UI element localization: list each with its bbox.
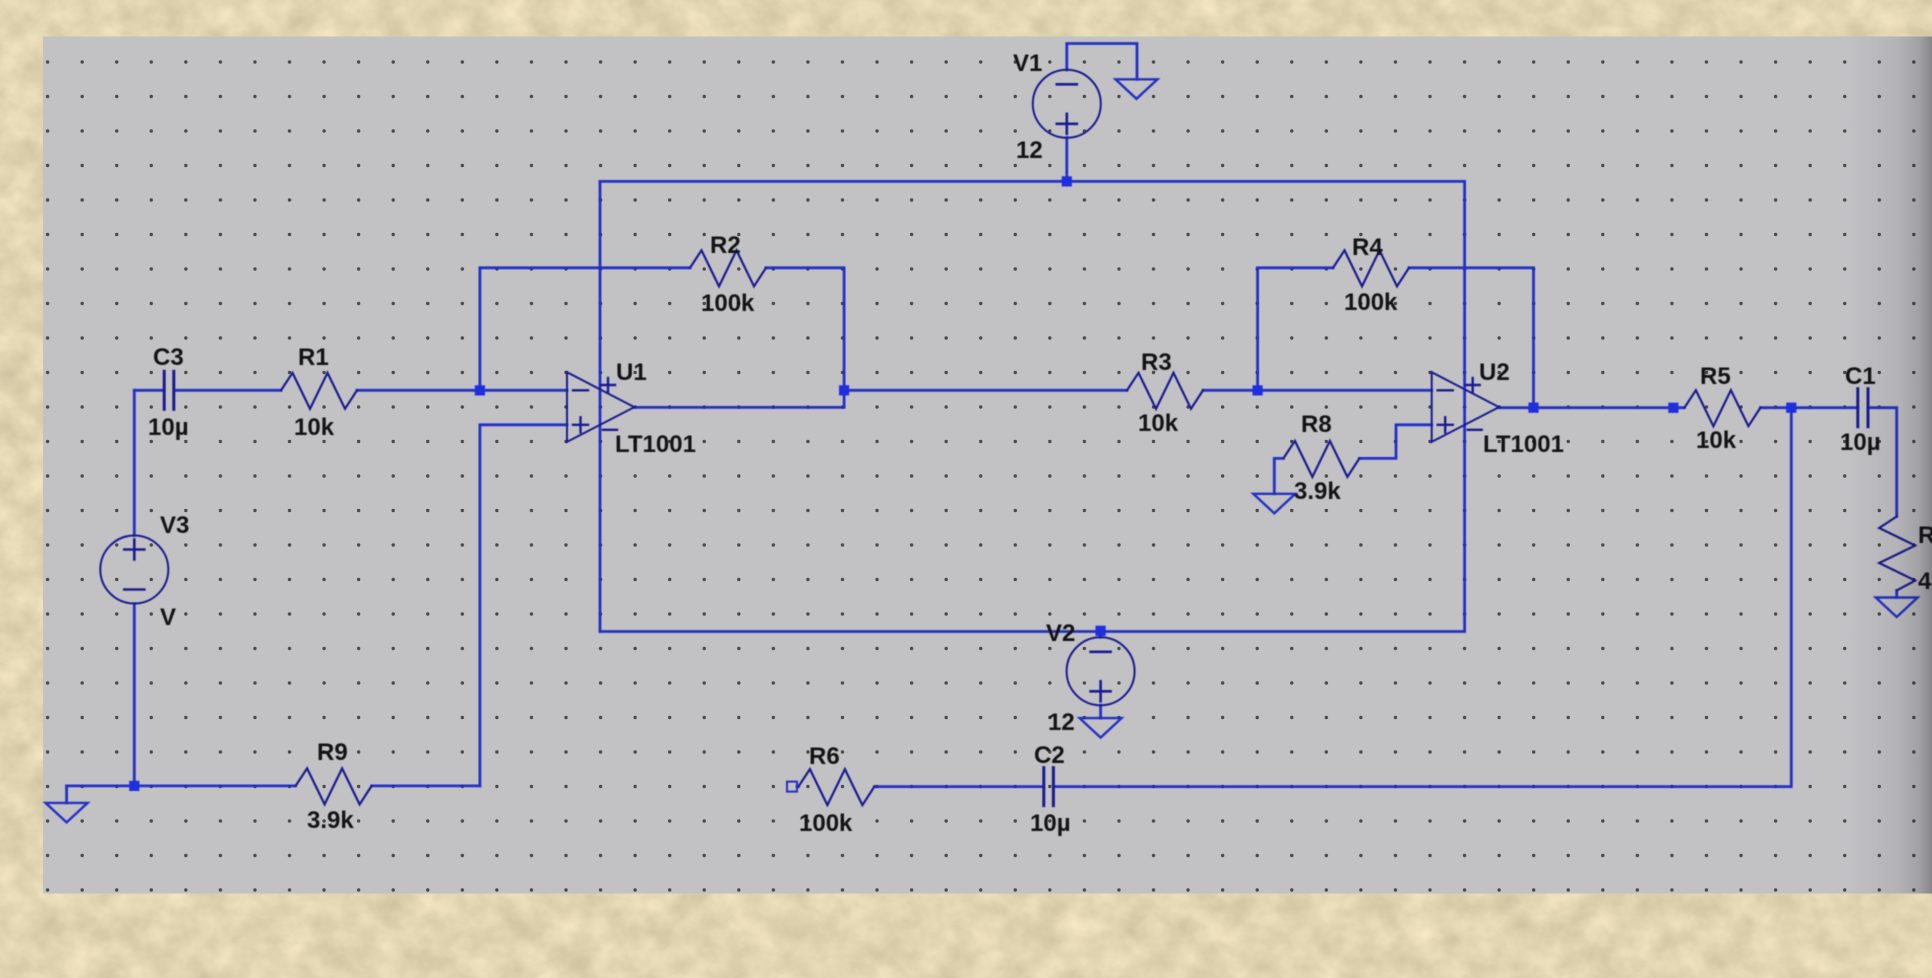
- wire R3 to U2 inverting input: [1203, 389, 1432, 392]
- svg-text:R5: R5: [1700, 363, 1731, 390]
- resistor R2 body: [690, 250, 766, 286]
- resistor R7 body: [1879, 517, 1915, 591]
- wire bottom power bus: [600, 630, 1465, 633]
- node U2 output node junction: [1528, 403, 1538, 413]
- wire feedback R4 right: [1409, 268, 1534, 408]
- svg-text:V: V: [160, 604, 176, 631]
- node V1 on top bus junction: [1062, 176, 1072, 186]
- node V3 ground node junction: [129, 781, 139, 791]
- svg-text:3.9k: 3.9k: [1294, 478, 1341, 505]
- wire feedback R4 left: [1258, 268, 1333, 391]
- voltage source V2 symbol: [1067, 637, 1135, 705]
- wire V3 bottom lead: [133, 604, 136, 786]
- wire V1 bottom lead: [1065, 138, 1068, 182]
- wire U2 noninverting input: [1359, 425, 1431, 459]
- wire R9 to feedback riser: [372, 785, 480, 788]
- node V2 on bottom bus junction: [1096, 626, 1106, 636]
- wire U1 output: [635, 390, 845, 407]
- port marker at R6 left: [787, 782, 797, 792]
- wire C1 to R7: [1868, 408, 1897, 517]
- svg-text:U1: U1: [616, 359, 647, 386]
- svg-text:R4: R4: [1352, 234, 1383, 261]
- wire V1 top lead to ground: [1067, 44, 1137, 80]
- wire R1 to U1 inverting input: [357, 389, 567, 392]
- resistor R6 body: [798, 769, 874, 805]
- svg-text:V1: V1: [1013, 50, 1042, 77]
- node R5 left node junction: [1668, 403, 1678, 413]
- wire R8 left lead to ground: [1274, 458, 1283, 493]
- svg-text:10k: 10k: [294, 414, 335, 441]
- svg-text:R9: R9: [317, 739, 348, 766]
- svg-text:C3: C3: [153, 344, 184, 371]
- svg-text:LT1001: LT1001: [615, 431, 696, 458]
- svg-text:100k: 100k: [799, 810, 853, 837]
- resistor R5 body: [1684, 390, 1760, 426]
- wire R6 port lead: [797, 785, 798, 788]
- svg-text:100k: 100k: [1344, 289, 1398, 316]
- ground right ground: [1876, 598, 1918, 618]
- voltage source V3 symbol: [100, 536, 168, 604]
- ground V1 ground: [1116, 79, 1158, 99]
- resistor R3 body: [1127, 373, 1203, 409]
- svg-text:10k: 10k: [1696, 427, 1737, 454]
- svg-text:100k: 100k: [701, 290, 755, 317]
- voltage source V1 symbol: [1033, 70, 1101, 138]
- wire V2 top lead: [1099, 631, 1102, 638]
- node C1 branch node junction: [1786, 403, 1796, 413]
- svg-text:R1: R1: [298, 344, 329, 371]
- svg-text:LT1001: LT1001: [1483, 431, 1564, 458]
- wire feedback R2 left: [480, 268, 690, 391]
- ground R8 ground: [1253, 494, 1295, 514]
- wire R7 to ground: [1895, 591, 1898, 598]
- node U2 inverting node junction: [1253, 385, 1263, 395]
- wire C3 to R1: [175, 389, 281, 392]
- wire R5 to C1: [1760, 406, 1857, 409]
- wire output to R3: [844, 389, 1127, 392]
- wire left ground stub: [65, 786, 68, 803]
- ground left ground: [46, 803, 88, 823]
- wire U1 V+ and V- power pin: [599, 181, 602, 631]
- ground V2 ground: [1080, 718, 1122, 738]
- capacitor C3 plates: [163, 371, 166, 409]
- op-amp U1 body: [567, 372, 634, 442]
- resistor R4 body: [1333, 250, 1409, 286]
- svg-text:10µ: 10µ: [148, 414, 189, 441]
- wire V2 bottom lead: [1099, 705, 1102, 718]
- svg-text:10k: 10k: [1138, 410, 1179, 437]
- wire feedback R2 right: [766, 268, 844, 391]
- resistor R8 body: [1283, 441, 1359, 477]
- capacitor C2 plates: [1042, 768, 1045, 806]
- wire output down leg: [1053, 408, 1791, 787]
- svg-text:C2: C2: [1034, 742, 1065, 769]
- wire C2 to R6: [874, 785, 1043, 788]
- svg-text:V3: V3: [160, 512, 189, 539]
- svg-text:R2: R2: [710, 232, 741, 259]
- svg-text:U2: U2: [1479, 359, 1510, 386]
- svg-text:3.9k: 3.9k: [307, 807, 354, 834]
- resistor R1 body: [281, 373, 357, 409]
- right edge shading: [1845, 37, 1932, 894]
- node U1 inverting node junction: [475, 385, 485, 395]
- resistor R9 body: [296, 768, 372, 804]
- svg-text:12: 12: [1048, 709, 1075, 736]
- wire V3 top lead: [133, 390, 136, 535]
- capacitor C1 plates: [1856, 389, 1859, 427]
- node U1 output node junction: [839, 385, 849, 395]
- wire U2 output bus: [1499, 406, 1685, 409]
- wire U1 noninverting input: [480, 425, 567, 786]
- svg-text:R6: R6: [809, 743, 840, 770]
- op-amp U2 body: [1432, 372, 1499, 442]
- svg-text:12: 12: [1016, 137, 1043, 164]
- wire ground bus left: [67, 785, 296, 788]
- svg-text:V2: V2: [1046, 620, 1075, 647]
- svg-text:R3: R3: [1141, 349, 1172, 376]
- wire top power bus: [600, 180, 1465, 183]
- svg-text:10µ: 10µ: [1030, 810, 1071, 837]
- wire U2 power pin: [1463, 181, 1466, 631]
- svg-text:R8: R8: [1301, 411, 1332, 438]
- wire input line left segment: [134, 389, 163, 392]
